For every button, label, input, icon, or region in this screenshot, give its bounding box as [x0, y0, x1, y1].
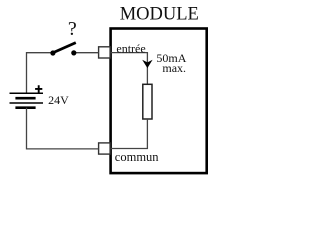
battery B1 plate long thin (positive) — [10, 92, 44, 94]
svg-text:?: ? — [68, 18, 77, 40]
battery B1 plate short thick (negative) — [15, 106, 35, 109]
battery B1 plate short thick — [15, 97, 35, 100]
wire: top-left corner to switch left contact — [27, 53, 53, 94]
terminal entrée (input terminal rect) — [99, 47, 111, 58]
module box U1 — [111, 29, 207, 174]
battery B1 plate long thin — [10, 102, 44, 104]
arrowhead current direction (down) — [142, 60, 152, 68]
switch S1 right contact dot — [71, 50, 76, 55]
svg-text:entrée: entrée — [116, 41, 145, 55]
svg-text:max.: max. — [162, 61, 186, 75]
terminal commun (common terminal rect) — [99, 143, 111, 154]
svg-text:24V: 24V — [48, 93, 69, 107]
wire: battery negative down and right to commun terminal — [27, 108, 99, 149]
wire: inside module from entrée terminal right then down — [111, 53, 148, 85]
battery + polarity mark — [35, 85, 42, 92]
resistor load R1 — [143, 84, 152, 119]
switch S1 lever — [54, 43, 76, 53]
switch S1 left contact dot — [50, 50, 55, 55]
svg-text:MODULE: MODULE — [120, 5, 199, 25]
wire: resistor bottom down then left to commun terminal — [111, 119, 148, 149]
wire: switch right contact to entrée terminal — [74, 52, 99, 54]
svg-text:commun: commun — [115, 150, 159, 164]
